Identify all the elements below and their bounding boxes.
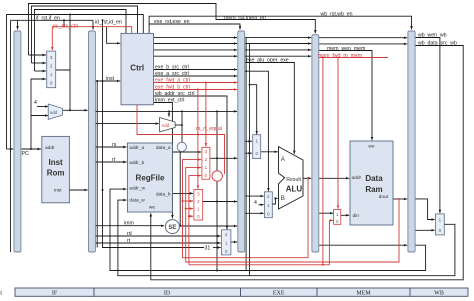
svg-text:rd: rd: [127, 231, 132, 237]
svg-text:addr_w: addr_w: [129, 186, 145, 192]
svg-text:4: 4: [254, 200, 257, 206]
svg-text:wb_rst,wb_en: wb_rst,wb_en: [321, 12, 353, 18]
svg-text:inst: inst: [54, 188, 62, 194]
svg-text:mem_fwd_m_mem: mem_fwd_m_mem: [318, 53, 362, 59]
svg-text:wb_data_src_wb: wb_data_src_wb: [418, 41, 457, 47]
svg-text:MEM: MEM: [356, 291, 371, 297]
svg-text:wb_wen_wb: wb_wen_wb: [418, 33, 447, 39]
svg-text:wb_addr_src_ctrl: wb_addr_src_ctrl: [155, 91, 195, 97]
svg-text:id_rst,id_en: id_rst,id_en: [95, 19, 122, 25]
svg-text:rt: rt: [112, 157, 116, 163]
svg-text:ALU: ALU: [286, 185, 303, 194]
svg-text:IF: IF: [52, 291, 58, 297]
svg-text:Ctrl: Ctrl: [130, 64, 144, 73]
svg-text:pc_src_ctrl: pc_src_ctrl: [53, 24, 78, 30]
svg-text:ID: ID: [164, 291, 171, 297]
svg-text:din: din: [353, 213, 360, 219]
svg-text:imm: imm: [124, 221, 134, 227]
svg-text:exe_fwd_a_ctrl: exe_fwd_a_ctrl: [155, 78, 190, 84]
svg-text:Inst: Inst: [48, 158, 63, 167]
svg-text:add: add: [50, 110, 58, 115]
svg-text:Result: Result: [286, 177, 301, 183]
svg-text:WB: WB: [434, 291, 444, 297]
svg-text:EXE: EXE: [273, 291, 285, 297]
svg-text:if_rst,if_en: if_rst,if_en: [36, 16, 60, 22]
svg-text:we: we: [368, 145, 374, 150]
svg-text:exe_alu_oper_exe: exe_alu_oper_exe: [246, 58, 289, 64]
svg-text:data_a: data_a: [156, 145, 171, 151]
svg-text:data_w: data_w: [129, 198, 145, 204]
svg-text:mem_rst,mem_en: mem_rst,mem_en: [224, 15, 266, 21]
svg-text:4: 4: [34, 100, 37, 106]
svg-text:we: we: [149, 206, 155, 211]
svg-text:addr: addr: [45, 145, 55, 151]
svg-text:RegFile: RegFile: [136, 174, 165, 183]
svg-text:addr: addr: [352, 175, 362, 181]
svg-text:exe_b_src_ctrl: exe_b_src_ctrl: [155, 65, 189, 71]
svg-text:exe_fwd_b_ctrl: exe_fwd_b_ctrl: [155, 85, 190, 91]
svg-text:rs: rs: [112, 142, 117, 148]
svg-text:data_b: data_b: [156, 192, 171, 198]
svg-text:rt: rt: [127, 238, 131, 244]
svg-text:addr_b: addr_b: [129, 160, 144, 166]
svg-text:Rom: Rom: [47, 169, 65, 178]
svg-text:exe_rst,exe_en: exe_rst,exe_en: [154, 19, 190, 25]
svg-text:dout: dout: [379, 194, 389, 200]
svg-text:31: 31: [205, 246, 211, 252]
svg-text:rs_rt_equal: rs_rt_equal: [196, 126, 222, 132]
svg-text:addr_a: addr_a: [129, 145, 144, 151]
svg-text:B: B: [281, 195, 285, 202]
svg-text:PC: PC: [22, 151, 29, 157]
svg-text:mem_wen_mem: mem_wen_mem: [327, 46, 365, 52]
svg-text:Ram: Ram: [365, 185, 382, 194]
svg-text:rst: rst: [0, 291, 2, 297]
svg-text:Add: Add: [162, 123, 170, 128]
svg-text:exe_a_src_ctrl: exe_a_src_ctrl: [155, 71, 189, 77]
svg-text:inst: inst: [106, 76, 115, 82]
svg-text:Data: Data: [365, 174, 383, 183]
svg-text:imm_ext_ctrl: imm_ext_ctrl: [155, 98, 184, 104]
svg-text:SE: SE: [168, 225, 176, 231]
